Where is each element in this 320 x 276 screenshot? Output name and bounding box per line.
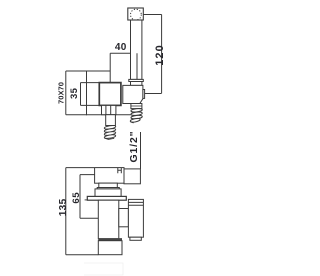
ghost shadow bottom — [84, 263, 123, 275]
svg-text:40: 40 — [115, 42, 127, 53]
hand shower head dashed circle — [131, 9, 142, 20]
svg-text:G1/2": G1/2" — [129, 131, 140, 163]
valve rim — [97, 188, 119, 189]
valve bell — [95, 189, 121, 197]
valve lower body — [98, 200, 119, 239]
elbow side stub — [143, 90, 145, 99]
right coil thread — [130, 108, 142, 123]
wall flange 70x70 (top view) — [87, 71, 131, 115]
leader G1/2" — [140, 132, 142, 169]
left coil thread — [104, 125, 116, 140]
dim 35 line — [81, 83, 100, 106]
elbow body — [123, 85, 143, 103]
wall plate left line — [85, 199, 88, 201]
hose nut — [131, 104, 142, 109]
outlet stack — [102, 105, 116, 114]
hose port — [124, 169, 140, 184]
handle bottom cap — [130, 237, 141, 240]
outlet neck — [106, 115, 116, 126]
mixer block — [99, 83, 121, 106]
tab detail — [118, 168, 122, 174]
svg-text:135: 135 — [58, 198, 69, 216]
dim 120 line — [143, 15, 161, 94]
body bottom cup — [98, 241, 122, 255]
wall plate — [87, 196, 126, 200]
dim 40 line — [110, 53, 137, 82]
dim 65 line — [80, 175, 98, 219]
valve neck — [99, 183, 118, 187]
hose nut inner line — [131, 105, 142, 107]
body dark band — [98, 238, 122, 241]
handle stem — [119, 209, 129, 227]
dim 40 right extension through shaft — [136, 53, 138, 79]
svg-text:65: 65 — [71, 192, 82, 204]
shower handle shaft — [131, 20, 142, 79]
hand shower head square — [128, 8, 144, 20]
handle body — [128, 199, 143, 237]
svg-text:35: 35 — [69, 87, 80, 99]
svg-text:120: 120 — [154, 44, 166, 66]
valve top body — [95, 168, 124, 184]
dim 70X70 line — [66, 71, 87, 115]
svg-text:70X70: 70X70 — [57, 82, 66, 104]
shaft neck — [131, 82, 142, 86]
handle bands — [128, 202, 143, 205]
elbow collar — [129, 79, 144, 81]
dim 135 line — [66, 168, 99, 255]
